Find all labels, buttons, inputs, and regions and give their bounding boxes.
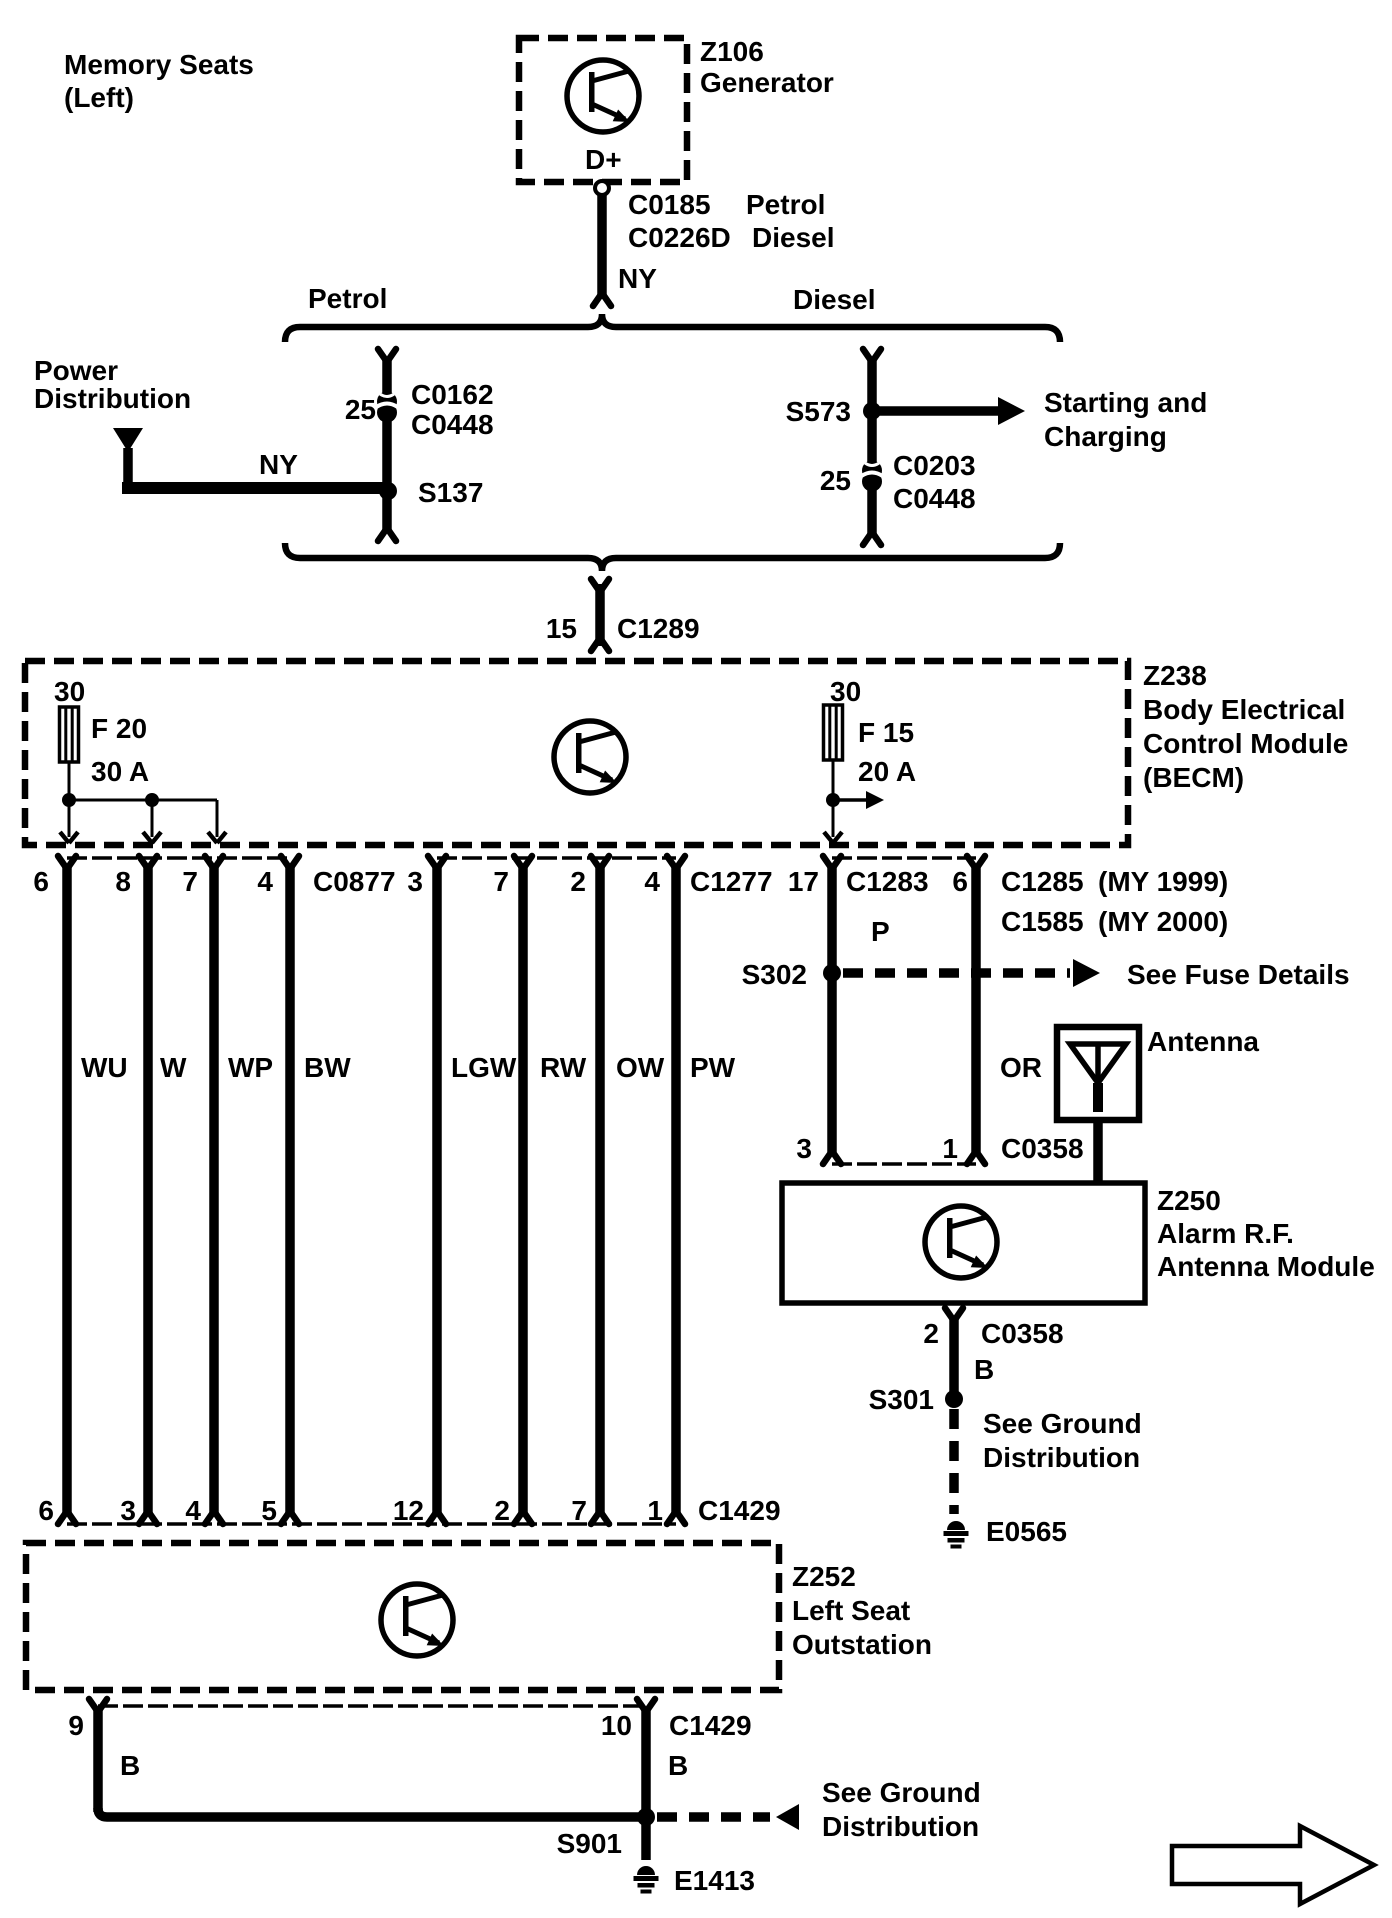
wire OR from pin6 xyxy=(971,866,981,1152)
svg-text:9: 9 xyxy=(68,1710,84,1741)
connector C1429 (lower) dashed link xyxy=(98,1704,646,1708)
connector C1429 dashed link xyxy=(67,1522,676,1526)
svg-text:C0185: C0185 xyxy=(628,189,711,220)
svg-text:OW: OW xyxy=(616,1052,665,1083)
pin 2 C1429 xyxy=(514,1511,532,1524)
wire diesel branch xyxy=(867,358,877,536)
dashed link to ground distribution xyxy=(657,1812,770,1822)
alarm module Z250 box xyxy=(782,1183,1145,1303)
pin 6 C0877 xyxy=(58,856,76,869)
label Starting and Charging xyxy=(1044,387,1207,452)
fork top of petrol wire xyxy=(378,349,396,362)
svg-text:Charging: Charging xyxy=(1044,421,1167,452)
pin 7 C1429 xyxy=(591,1511,609,1524)
svg-text:1: 1 xyxy=(942,1133,958,1164)
svg-text:E0565: E0565 xyxy=(986,1516,1067,1547)
svg-text:Z106: Z106 xyxy=(700,36,764,67)
fork at wire end xyxy=(593,293,611,306)
pin 3 C1277 xyxy=(428,856,446,869)
antenna box xyxy=(1057,1027,1139,1120)
svg-text:Distribution: Distribution xyxy=(822,1811,979,1842)
svg-text:Z250: Z250 xyxy=(1157,1185,1221,1216)
svg-text:W: W xyxy=(160,1052,187,1083)
pin 9 C1429 xyxy=(89,1699,107,1712)
pin 2 C0358 xyxy=(945,1308,963,1321)
label See Ground Distribution xyxy=(983,1408,1142,1473)
pin 12 C1429 xyxy=(428,1511,446,1524)
feed wiring from F15 xyxy=(832,760,835,837)
svg-text:P: P xyxy=(871,916,890,947)
svg-text:Power: Power xyxy=(34,355,118,386)
svg-text:3: 3 xyxy=(796,1133,812,1164)
svg-text:E1413: E1413 xyxy=(674,1865,755,1896)
junction dots xyxy=(62,793,76,807)
connector C0162/C0448 inline symbol xyxy=(377,392,398,423)
pin 1 C1429 xyxy=(667,1511,685,1524)
svg-text:Z238: Z238 xyxy=(1143,660,1207,691)
BECM Z238 dashed box xyxy=(25,661,1128,845)
svg-text:(MY 2000): (MY 2000) xyxy=(1098,906,1228,937)
svg-text:8: 8 xyxy=(115,866,131,897)
bottom splice brace xyxy=(285,543,1060,571)
svg-text:7: 7 xyxy=(493,866,509,897)
wire B right xyxy=(641,1709,651,1860)
generator symbol in Z252 xyxy=(381,1584,453,1656)
fuse F15 20A, terminal 30 xyxy=(824,676,917,787)
svg-text:Diesel: Diesel xyxy=(752,222,835,253)
connector C1283/C1285 dashed link xyxy=(832,856,976,860)
generator symbol in Z250 xyxy=(925,1206,997,1278)
wire WP pin7 to pin4 xyxy=(209,866,219,1514)
svg-text:Generator: Generator xyxy=(700,67,834,98)
connector ring at generator output xyxy=(595,181,609,195)
pin 4 C0877 xyxy=(281,856,299,869)
splice S302 xyxy=(823,964,841,982)
svg-text:4: 4 xyxy=(185,1495,201,1526)
svg-text:C1585: C1585 xyxy=(1001,906,1084,937)
branch labels Petrol / Diesel xyxy=(308,283,876,315)
label C0162 C0448 xyxy=(411,379,494,440)
pin 4 C1429 xyxy=(205,1511,223,1524)
svg-text:C1429: C1429 xyxy=(698,1495,781,1526)
connector C1277 dashed link xyxy=(437,856,676,860)
svg-text:NY: NY xyxy=(259,449,298,480)
svg-text:See Ground: See Ground xyxy=(983,1408,1142,1439)
label Z238 Body Electrical Control Module (BECM) xyxy=(1143,660,1348,793)
svg-text:NY: NY xyxy=(618,263,657,294)
svg-text:Petrol: Petrol xyxy=(746,189,825,220)
svg-text:C0877: C0877 xyxy=(313,866,396,897)
pin 6 C1429 xyxy=(58,1511,76,1524)
svg-text:S137: S137 xyxy=(418,477,483,508)
svg-text:C1289: C1289 xyxy=(617,613,700,644)
wire P from pin17 xyxy=(827,866,837,1152)
svg-text:B: B xyxy=(120,1750,140,1781)
outstation Z252 dashed box xyxy=(26,1543,779,1690)
svg-text:Starting and: Starting and xyxy=(1044,387,1207,418)
svg-text:12: 12 xyxy=(393,1495,424,1526)
svg-text:Memory Seats: Memory Seats xyxy=(64,49,254,80)
continuation arrow xyxy=(1172,1826,1374,1904)
label Z252 Left Seat Outstation xyxy=(792,1561,932,1660)
svg-text:3: 3 xyxy=(407,866,423,897)
fork bottom of petrol wire xyxy=(378,528,396,541)
ground wire joining xyxy=(98,1808,646,1817)
svg-text:25: 25 xyxy=(820,465,851,496)
pin 3 C1429 xyxy=(139,1511,157,1524)
svg-text:Left Seat: Left Seat xyxy=(792,1595,910,1626)
arrowheads into pins xyxy=(60,832,226,843)
svg-text:S573: S573 xyxy=(786,396,851,427)
svg-text:D+: D+ xyxy=(585,144,622,175)
wire petrol branch xyxy=(382,358,392,532)
wire NY from generator to splice brace xyxy=(597,195,607,299)
svg-text:B: B xyxy=(668,1750,688,1781)
wire BW pin4 to pin5 xyxy=(285,866,295,1514)
svg-text:3: 3 xyxy=(120,1495,136,1526)
wire NY to power distribution xyxy=(123,448,133,488)
title: Memory Seats (Left) xyxy=(64,49,254,113)
svg-text:20 A: 20 A xyxy=(858,756,916,787)
svg-text:(MY 1999): (MY 1999) xyxy=(1098,866,1228,897)
power distribution arrow xyxy=(113,428,143,452)
svg-text:C1285: C1285 xyxy=(1001,866,1084,897)
fork bottom of diesel wire xyxy=(863,532,881,545)
svg-text:C0162: C0162 xyxy=(411,379,494,410)
svg-text:Diesel: Diesel xyxy=(793,284,876,315)
svg-text:6: 6 xyxy=(952,866,968,897)
splice S301 xyxy=(945,1390,963,1408)
svg-text:2: 2 xyxy=(494,1495,510,1526)
svg-text:LGW: LGW xyxy=(451,1052,517,1083)
svg-text:30: 30 xyxy=(830,676,861,707)
label Power Distribution xyxy=(34,355,191,414)
top splice brace xyxy=(285,314,1060,342)
connector C0203/C0448 inline symbol xyxy=(862,461,883,492)
ground E0565 xyxy=(944,1521,969,1549)
pin 7 C0877 xyxy=(205,856,223,869)
pin 6 C1285 xyxy=(967,856,985,869)
svg-text:4: 4 xyxy=(644,866,660,897)
wire W pin8 to pin3 xyxy=(143,866,153,1514)
label See Ground Distribution xyxy=(822,1777,981,1842)
svg-text:BW: BW xyxy=(304,1052,351,1083)
svg-text:1: 1 xyxy=(647,1495,663,1526)
wire RW pin7 to pin2 xyxy=(518,866,528,1514)
svg-text:Petrol: Petrol xyxy=(308,283,387,314)
svg-text:S301: S301 xyxy=(869,1384,934,1415)
svg-text:B: B xyxy=(974,1354,994,1385)
svg-text:C1277: C1277 xyxy=(690,866,773,897)
svg-text:S901: S901 xyxy=(557,1828,622,1859)
svg-text:30: 30 xyxy=(54,676,85,707)
svg-text:Control Module: Control Module xyxy=(1143,728,1348,759)
svg-text:WP: WP xyxy=(228,1052,273,1083)
generator Z106 dashed box xyxy=(519,38,687,182)
svg-text:WU: WU xyxy=(81,1052,128,1083)
svg-text:(Left): (Left) xyxy=(64,82,134,113)
generator symbol Z106 xyxy=(567,60,639,132)
svg-text:6: 6 xyxy=(33,866,49,897)
svg-text:Body Electrical: Body Electrical xyxy=(1143,694,1345,725)
svg-text:C0358: C0358 xyxy=(981,1318,1064,1349)
dashed arrow to fuse details xyxy=(843,968,1070,978)
svg-text:30 A: 30 A xyxy=(91,756,149,787)
pin 8 C0877 xyxy=(139,856,157,869)
svg-text:RW: RW xyxy=(540,1052,587,1083)
svg-text:C1429: C1429 xyxy=(669,1710,752,1741)
pin 17 C1283 xyxy=(823,856,841,869)
pin 2 C1277 xyxy=(591,856,609,869)
svg-text:15: 15 xyxy=(546,613,577,644)
svg-text:Antenna Module: Antenna Module xyxy=(1157,1251,1375,1282)
fork bottom of P wire xyxy=(823,1151,841,1164)
connector C1289 pin 15 xyxy=(546,579,700,651)
svg-text:PW: PW xyxy=(690,1052,736,1083)
svg-text:C0448: C0448 xyxy=(411,409,494,440)
antenna symbol xyxy=(1070,1044,1126,1083)
svg-text:C1283: C1283 xyxy=(846,866,929,897)
svg-text:C0358: C0358 xyxy=(1001,1133,1084,1164)
wire OW pin2 to pin7 xyxy=(595,866,605,1514)
wire PW pin4 to pin1 xyxy=(671,866,681,1514)
svg-text:7: 7 xyxy=(182,866,198,897)
svg-text:F 20: F 20 xyxy=(91,713,147,744)
svg-text:S302: S302 xyxy=(742,959,807,990)
splice S137 xyxy=(379,482,397,500)
label Z106 Generator xyxy=(700,36,834,98)
svg-text:C0448: C0448 xyxy=(893,483,976,514)
fuse F20 30A, terminal 30 xyxy=(54,676,149,787)
splice S573 xyxy=(863,402,881,420)
ground E1413 xyxy=(634,1866,659,1894)
fork top of diesel wire xyxy=(863,349,881,362)
svg-text:4: 4 xyxy=(257,866,273,897)
svg-text:Outstation: Outstation xyxy=(792,1629,932,1660)
svg-text:Distribution: Distribution xyxy=(983,1442,1140,1473)
svg-text:C0203: C0203 xyxy=(893,450,976,481)
svg-text:7: 7 xyxy=(571,1495,587,1526)
svg-text:6: 6 xyxy=(38,1495,54,1526)
label Z250 Alarm R.F. Antenna Module xyxy=(1157,1185,1375,1282)
svg-text:Z252: Z252 xyxy=(792,1561,856,1592)
svg-text:17: 17 xyxy=(788,866,819,897)
pin 10 C1429 xyxy=(637,1699,655,1712)
connector C0358 dashed link xyxy=(832,1162,976,1166)
svg-text:Alarm R.F.: Alarm R.F. xyxy=(1157,1218,1294,1249)
dashed wire to ground xyxy=(949,1409,959,1514)
label C0185 Petrol / C0226D Diesel / NY xyxy=(618,189,835,294)
pin 7 C1277 xyxy=(514,856,532,869)
wire WU pin6 to pin6 xyxy=(62,866,72,1514)
pin 4 C1277 xyxy=(667,856,685,869)
wire B left xyxy=(93,1709,103,1812)
connector C0877 dashed link xyxy=(67,856,290,860)
svg-text:2: 2 xyxy=(570,866,586,897)
svg-text:C0226D: C0226D xyxy=(628,222,731,253)
svg-text:OR: OR xyxy=(1000,1052,1042,1083)
svg-text:Distribution: Distribution xyxy=(34,383,191,414)
svg-text:F 15: F 15 xyxy=(858,717,914,748)
svg-text:Antenna: Antenna xyxy=(1147,1026,1259,1057)
label C0203 C0448 xyxy=(893,450,976,514)
generator symbol in BECM xyxy=(554,721,626,793)
wire antenna to module xyxy=(1093,1120,1103,1183)
svg-text:25: 25 xyxy=(345,394,376,425)
wire LGW pin3 to pin12 xyxy=(432,866,442,1514)
svg-text:(BECM): (BECM) xyxy=(1143,762,1244,793)
fork bottom of OR wire xyxy=(967,1151,985,1164)
feed wiring from F20 xyxy=(69,762,217,837)
svg-text:See Fuse Details: See Fuse Details xyxy=(1127,959,1350,990)
svg-text:5: 5 xyxy=(261,1495,277,1526)
svg-text:See Ground: See Ground xyxy=(822,1777,981,1808)
wire B xyxy=(949,1318,959,1392)
pin 5 C1429 xyxy=(281,1511,299,1524)
arrow to starting and charging xyxy=(877,406,1000,416)
svg-text:10: 10 xyxy=(601,1710,632,1741)
svg-text:2: 2 xyxy=(923,1318,939,1349)
splice S901 xyxy=(637,1808,655,1826)
